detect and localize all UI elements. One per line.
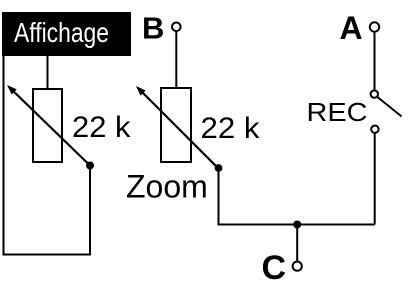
svg-text:B: B <box>142 11 164 46</box>
terminal A <box>370 22 379 31</box>
switch lever (open) <box>377 97 401 117</box>
potentiometer P2 wiper arrow <box>136 86 219 169</box>
svg-text:A: A <box>340 10 363 46</box>
potentiometer P2 body <box>161 88 191 162</box>
svg-text:Affichage: Affichage <box>14 17 109 48</box>
terminal C <box>293 262 302 271</box>
junction dot: node C junction <box>293 221 301 229</box>
svg-text:22 k: 22 k <box>201 112 261 145</box>
wire: P2 wiper down and right along bottom bus <box>219 168 375 225</box>
wire: switch bottom contact to bus <box>374 133 376 225</box>
wire: junction to C terminal <box>296 225 298 262</box>
potentiometer P1 wiper arrow <box>7 85 90 166</box>
wire: B terminal to P2 top <box>175 31 177 88</box>
svg-text:C: C <box>262 249 287 285</box>
terminal B <box>172 23 181 32</box>
junction dot: P1 wiper node <box>86 162 94 170</box>
switch bottom contact <box>371 126 378 133</box>
display box "Affichage" <box>2 12 131 56</box>
junction dot: P2 wiper node <box>215 164 223 172</box>
switch pivot contact <box>371 90 378 97</box>
wire: Affichage box to P1 top <box>47 56 49 90</box>
potentiometer P1 body <box>33 89 62 162</box>
svg-text:Zoom: Zoom <box>126 169 208 205</box>
wire: Affichage left lead loop to P1 wiper <box>4 56 91 255</box>
svg-text:22 k: 22 k <box>72 111 132 144</box>
svg-text:REC: REC <box>307 97 368 127</box>
wire: A terminal to switch pivot <box>374 32 376 91</box>
